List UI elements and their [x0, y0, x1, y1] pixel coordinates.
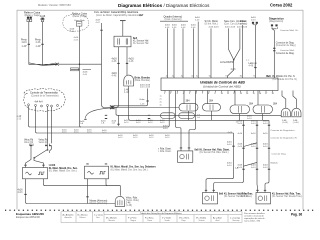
label assist title	[236, 20, 248, 29]
label W29	[18, 190, 24, 195]
wire W17 motor	[241, 25, 243, 78]
wire W19 diagnostic	[272, 27, 278, 78]
svg-text:da. Tras.: da. Tras.	[240, 195, 249, 198]
connector ticks on W19	[273, 48, 275, 51]
wire W27 right drop	[50, 146, 52, 153]
wire stubs at connector row	[30, 144, 50, 146]
svg-text:da. Tras.: da. Tras.	[240, 192, 249, 195]
svg-text:(Conector de Diag.): (Conector de Diag.)	[276, 44, 296, 47]
wire W39 right vertical b	[256, 120, 259, 192]
wire Y1 down	[188, 111, 190, 120]
svg-text:(Cont. de Motor: Caja ECM/Iny.: (Cont. de Motor: Caja ECM/Iny. Electróni…	[96, 14, 141, 17]
inline connector X7	[71, 68, 92, 71]
svg-text:4-46: 4-46	[172, 27, 177, 29]
label sensor FR designator	[111, 166, 157, 172]
svg-text:(KL Sensor Hal. Rda. Diant.): (KL Sensor Hal. Rda. Diant.)	[200, 151, 229, 154]
wire jog J4	[244, 143, 258, 147]
label speed sensor pair a	[24, 139, 34, 144]
svg-text:Linha RD/PR: Linha RD/PR	[220, 62, 234, 64]
footer table cells text	[63, 214, 241, 222]
label on W5 upper	[112, 58, 118, 64]
wire W12 panel e	[197, 22, 199, 79]
label ECM title	[94, 11, 144, 17]
svg-text:(Relés y Caja): (Relés y Caja)	[73, 16, 88, 18]
svg-text:8e8: 8e8	[195, 148, 200, 151]
svg-text:Esquemas ABS1/00: Esquemas ABS1/00	[16, 215, 40, 219]
svg-text:4x16 4x16: 4x16 4x16	[225, 27, 236, 29]
label W33	[163, 125, 169, 129]
wire W26 crossover upper	[34, 143, 48, 167]
pump motor M2	[292, 108, 301, 117]
wire W15 assist	[234, 28, 240, 59]
svg-text:P = Preto: P = Preto	[128, 216, 137, 219]
label speed sensor pair b	[39, 139, 49, 144]
label right note 3	[272, 153, 287, 156]
svg-text:Blanco: Blanco	[80, 217, 87, 219]
connector tick W36	[232, 145, 234, 147]
label row mid band	[62, 129, 170, 139]
wire W13 inhibit	[210, 28, 212, 78]
hall sensor B3 rear-left	[203, 193, 218, 204]
label sensor FL designator	[49, 164, 78, 172]
wire pin18 to M2	[293, 91, 296, 109]
svg-text:A = Amarelo: A = Amarelo	[63, 214, 75, 217]
connector ticks W40	[268, 125, 270, 169]
connector tick on W5	[117, 62, 119, 64]
labels on W38	[238, 121, 244, 169]
label TC1 title	[30, 92, 59, 98]
svg-text:4x16: 4x16	[263, 146, 269, 148]
sensor B1 dome (Boia/Bomba)	[124, 75, 134, 86]
svg-text:3B4: 3B4	[186, 101, 191, 103]
wire W1 battery feed	[28, 22, 30, 63]
svg-text:3B4: 3B4	[249, 103, 254, 105]
ground dome E1	[115, 196, 124, 206]
label row extra right column	[238, 133, 269, 135]
svg-text:4x16: 4x16	[22, 41, 28, 44]
ECM box U1	[114, 36, 131, 47]
svg-text:(Si Inh. Mot.): (Si Inh. Mot.)	[205, 22, 218, 25]
valve Y1	[179, 104, 198, 111]
label on merged wire	[220, 60, 250, 71]
svg-text:(KL Mást. Mástil. Drs. Sen. Iz: (KL Mást. Mástil. Drs. Sen. Izq. Del.)	[111, 168, 148, 171]
svg-text:KL Mást. Mástil. Drs. Sen.: KL Mást. Mástil. Drs. Sen.	[49, 167, 78, 170]
svg-text:1-46: 1-46	[140, 104, 145, 106]
label W36 a	[227, 142, 233, 146]
wire W25 left drop	[26, 143, 32, 167]
connector ticks on buses	[105, 115, 150, 118]
connector ticks W39	[256, 125, 258, 169]
svg-text:Azul: Azul	[216, 219, 220, 222]
wire W41 from K2	[79, 26, 81, 64]
svg-text:KL Módulo Ctr. Pto. N: KL Módulo Ctr. Pto. N	[273, 75, 295, 78]
wire W36 pin11 long drop	[206, 133, 234, 193]
svg-text:Marrón: Marrón	[109, 220, 115, 222]
connector X1 (fuse block terminals)	[27, 17, 32, 22]
wire pin17 to M1	[282, 91, 286, 109]
label W43 top	[140, 84, 151, 88]
svg-text:Conector Mód. Ctr.: Conector Mód. Ctr.	[280, 29, 299, 32]
pin ticks G1	[24, 164, 44, 166]
pin labels panel row	[165, 24, 197, 28]
svg-text:4x16: 4x16	[74, 39, 80, 41]
svg-text:4x16 4x16: 4x16 4x16	[209, 27, 220, 29]
footer note block	[244, 212, 265, 223]
svg-text:Az = Azul: Az = Azul	[213, 216, 222, 219]
connector X2	[41, 18, 43, 22]
wire W3 to main junction	[59, 23, 111, 108]
svg-text:4-46: 4-46	[83, 74, 88, 76]
svg-text:4x16: 4x16	[18, 192, 24, 194]
svg-text:Violeta: Violeta	[199, 219, 206, 222]
connector tick on W18	[254, 67, 256, 69]
pump motor M1	[281, 108, 290, 117]
svg-text:4x17: 4x17	[96, 22, 102, 24]
svg-text:4x16: 4x16	[227, 144, 233, 146]
label motor ground	[240, 20, 247, 26]
svg-text:Amarillo: Amarillo	[65, 216, 73, 219]
svg-text:8e8: 8e8	[267, 75, 272, 78]
wire W37 hall rear-left second	[214, 120, 244, 192]
svg-text:4-46: 4-46	[112, 60, 117, 63]
bus N1 valve return	[116, 108, 281, 116]
labels on W39	[251, 121, 257, 169]
connector X5 diag terminals	[271, 24, 278, 26]
main junction J1	[110, 106, 115, 110]
svg-text:Veloc.Rd: Veloc.Rd	[39, 142, 49, 144]
label fuse F2	[40, 15, 46, 21]
svg-text:4-46: 4-46	[181, 27, 186, 29]
labels on W40	[263, 121, 269, 169]
label right margin note 2	[280, 49, 295, 52]
svg-text:4x16 4x16: 4x16 4x16	[140, 87, 151, 89]
valve Y6 lower row b	[179, 113, 195, 119]
svg-text:Controle da Transmissão: Controle da Transmissão	[30, 92, 58, 95]
bus N2 lower link	[129, 115, 269, 120]
wire W21 bus3 rise to pin	[168, 91, 170, 128]
label X7	[83, 72, 89, 76]
svg-text:4x16: 4x16	[70, 31, 76, 33]
svg-text:(...): (...)	[246, 60, 250, 62]
svg-text:3B4: 3B4	[273, 103, 278, 105]
svg-text:1-4P: 1-4P	[22, 45, 27, 48]
svg-text:(KL Mást. Mástil. Drs. Sen.): (KL Mást. Mástil. Drs. Sen.)	[49, 170, 77, 173]
wire W28 bus1 into G2	[87, 127, 89, 163]
svg-text:4-46: 4-46	[129, 60, 134, 63]
wire Y4 down	[262, 114, 264, 121]
label B4 right	[272, 192, 302, 198]
bus N0 to valve Y1	[114, 107, 180, 109]
footer legend table	[61, 212, 242, 223]
relay cloud K2	[63, 14, 89, 31]
wire W4 ECM supply	[122, 21, 124, 37]
junction J2	[233, 59, 235, 61]
label diag connector block2	[276, 52, 295, 55]
wire W10 panel c	[182, 28, 184, 78]
wire W5 from U1 pin A	[113, 47, 119, 108]
svg-text:Pag. 36: Pag. 36	[291, 213, 302, 217]
svg-text:Motor: Motor	[240, 20, 246, 23]
label on W5 lower	[112, 72, 118, 78]
svg-text:KL Sensor Hal. Rda. Tras.: KL Sensor Hal. Rda. Tras.	[224, 192, 253, 195]
transmission cloud TC1	[23, 89, 65, 112]
svg-text:Cx/s. de Motor: Caixa ECM/Inj.: Cx/s. de Motor: Caixa ECM/Inj. Eletrônic…	[94, 11, 139, 14]
svg-text:Gris: Gris	[96, 217, 100, 219]
wire stub S2 from J1	[85, 108, 112, 119]
svg-text:4x16: 4x16	[251, 19, 257, 21]
hall sensor B2 mid	[178, 151, 193, 162]
label row under pins left	[101, 120, 165, 125]
wire W16 merged to box	[228, 60, 234, 78]
svg-text:Conector Mód.: Conector Mód.	[280, 49, 295, 52]
wire W22 cloud to bus4	[36, 106, 234, 133]
wire W31 G2 ground	[87, 179, 89, 204]
footer schema name	[16, 212, 44, 219]
wire W11 panel d	[193, 28, 195, 78]
label W12 top	[195, 17, 201, 21]
svg-text:Corsa 2002 - GM: Corsa 2002 - GM	[244, 220, 260, 223]
label diagnostic title	[269, 16, 284, 23]
svg-text:Veloc.Rd: Veloc.Rd	[24, 142, 34, 144]
ruler tick marks	[5, 210, 313, 211]
svg-text:Modelo / Versión: 5957/153: Modelo / Versión: 5957/153	[38, 3, 71, 7]
svg-text:Vl = Violeta: Vl = Violeta	[196, 216, 207, 219]
pin ticks G2	[86, 163, 107, 165]
valve Y3	[230, 105, 250, 114]
wire W34 pin5 to hall mid	[187, 91, 190, 151]
wire W23 cloud sensor a	[47, 106, 49, 143]
svg-text:Si Inh. Motor: Si Inh. Motor	[205, 20, 219, 23]
splice X3 crossover	[29, 63, 59, 66]
wire W14 console	[228, 28, 233, 59]
wire W7 from B1 to bus	[128, 86, 130, 115]
svg-text:(KL Sensor Hal. Rueda Tras.): (KL Sensor Hal. Rueda Tras.)	[272, 195, 302, 198]
svg-text:Verde: Verde	[165, 220, 171, 222]
wire Y2 down	[211, 111, 213, 120]
svg-text:Veloc.: Veloc.	[139, 99, 145, 101]
label W43 mid	[139, 99, 145, 106]
wire stub S3 below J1	[118, 115, 120, 126]
svg-text:(Cont. (Interno)): (Cont. (Interno))	[165, 18, 182, 21]
label on W6	[129, 58, 135, 64]
label pin column left	[160, 96, 163, 107]
connector ticks row X6	[30, 145, 52, 147]
svg-text:Módulo: Módulo	[271, 162, 279, 164]
svg-text:(Diagnóstico): (Diagnóstico)	[269, 20, 283, 23]
pin ticks hall rear-left	[205, 189, 215, 191]
wire W20 cloud to bus3	[29, 106, 168, 127]
pin labels above ABS box	[166, 76, 276, 78]
label under M2	[293, 120, 299, 124]
svg-text:(Bóia. Bomba): (Bóia. Bomba)	[135, 79, 150, 82]
wire W24 cloud sensor b	[51, 107, 53, 143]
connector tick on W2	[41, 43, 43, 45]
wire W9 panel b	[173, 28, 175, 78]
label right note 1	[271, 129, 296, 132]
label relay box K1	[24, 10, 41, 17]
svg-text:Naranja: Naranja	[233, 220, 241, 222]
label E1	[126, 198, 140, 208]
svg-text:KL Sensor Hal. Rda. Tras.: KL Sensor Hal. Rda. Tras.	[272, 192, 301, 195]
svg-text:KL Sensor Hal. Rda. Diant.: KL Sensor Hal. Rda. Diant.	[200, 148, 230, 151]
svg-text:(Motor): (Motor)	[240, 22, 247, 25]
node switch contacts	[34, 149, 49, 158]
label W41	[74, 37, 80, 41]
svg-text:4x16: 4x16	[238, 146, 244, 148]
wheel sensor G1 front-left	[23, 168, 48, 179]
label W31 massa	[90, 199, 108, 205]
svg-text:4-46: 4-46	[112, 75, 117, 78]
label B2 right	[195, 148, 230, 154]
svg-text:r. Rda. Diant.: r. Rda. Diant.	[158, 150, 172, 153]
wire W6 from U1 pin B	[126, 47, 128, 75]
svg-text:Conector de Diagnóstico: Conector de Diagnóstico	[271, 129, 296, 132]
wire pin16 to Y4	[257, 91, 259, 106]
svg-text:Corsa 2002: Corsa 2002	[270, 3, 293, 8]
label on W18	[249, 63, 258, 68]
connector tick on W6	[126, 62, 128, 64]
connector ticks W38	[242, 125, 244, 169]
wire W2 ignition feed	[42, 22, 44, 66]
wire W33 pin2 to hall mid	[176, 91, 182, 151]
ABS control unit U2	[161, 78, 278, 91]
wire W8 panel a	[167, 28, 169, 78]
svg-text:Caixa Rele: Caixa Rele	[74, 20, 85, 22]
label right note 4	[271, 162, 279, 164]
wire W32 G2 signal	[106, 179, 120, 196]
svg-text:4x16: 4x16	[163, 128, 169, 130]
pin stubs below U2	[165, 91, 273, 93]
valve Y2	[203, 104, 221, 111]
wire Y3 down	[239, 114, 241, 121]
svg-text:(KL Módulo Ctrl. Pto. N): (KL Módulo Ctrl. Pto. N)	[273, 78, 298, 81]
svg-text:Negro: Negro	[131, 220, 137, 222]
wire pin12 to Y3	[234, 91, 236, 106]
svg-text:Massa (Abertura): Massa (Abertura)	[90, 202, 108, 205]
svg-text:4x16: 4x16	[251, 146, 257, 148]
svg-text:4x16: 4x16	[238, 123, 244, 125]
label under M1	[282, 120, 288, 124]
wire pin4 to Y1	[183, 91, 185, 104]
valve Y5 lower row a	[161, 113, 176, 119]
svg-text:(Relés y Caja): (Relés y Caja)	[25, 14, 40, 17]
svg-text:4x16: 4x16	[247, 118, 253, 120]
svg-text:4x4 4x4: 4x4 4x4	[35, 101, 44, 103]
wire W35 hall mid second pin	[189, 91, 196, 151]
svg-text:4x16: 4x16	[263, 123, 269, 125]
label U1 right	[133, 37, 149, 45]
wire W42 stub to inline connector	[71, 64, 81, 127]
connector tick on W3	[100, 29, 102, 31]
label W3 top	[96, 20, 102, 24]
svg-text:4x16: 4x16	[251, 123, 257, 125]
frame border	[17, 10, 303, 209]
pin ticks hall rear-right	[256, 189, 266, 191]
label splice S1 wire colors	[21, 39, 41, 48]
svg-text:3B4: 3B4	[209, 101, 214, 103]
node terminals in TC1	[28, 104, 59, 107]
svg-text:KL Sensor Hal: KL Sensor Hal	[133, 42, 149, 45]
label panel title (Quadro)	[160, 16, 188, 22]
svg-text:8e8: 8e8	[219, 192, 224, 195]
label right note 2	[271, 137, 298, 140]
svg-text:4x16: 4x16	[263, 167, 269, 169]
label W36 b	[227, 163, 233, 167]
svg-text:4x16: 4x16	[228, 132, 234, 134]
svg-text:(1-46): (1-46)	[126, 205, 132, 207]
label Y6 right	[197, 115, 201, 119]
svg-text:1-10: 1-10	[17, 119, 22, 121]
wheel sensor G2 front-right	[85, 166, 109, 179]
svg-text:Conector Diag.: Conector Diag.	[272, 153, 287, 156]
connector tick S2	[84, 118, 86, 120]
wire jog J5	[244, 162, 258, 166]
wire pin7 to Y2	[207, 91, 209, 104]
svg-text:(Unidad de Control del ABS): (Unidad de Control del ABS)	[203, 84, 241, 88]
node T1 terminal bar	[120, 20, 126, 22]
label console switch title	[224, 20, 236, 29]
svg-text:(Control de la Transmisión): (Control de la Transmisión)	[31, 94, 59, 97]
label B3 right	[219, 192, 253, 198]
svg-text:Conector de Diagnóstico N: Conector de Diagnóstico N	[271, 137, 298, 140]
connector ticks above hall mid	[180, 147, 190, 149]
svg-text:Save Con.: Save Con.	[224, 20, 235, 23]
hall sensor B4 rear-right	[256, 193, 271, 204]
pin number labels below U2	[164, 93, 275, 95]
svg-text:Diagramas Elétricos / Diagrama: Diagramas Elétricos / Diagramas Eléctric…	[118, 3, 210, 8]
label left of B4	[240, 192, 249, 198]
label U2 right (module)	[267, 75, 298, 81]
svg-text:4-46: 4-46	[36, 41, 41, 44]
connector X4 terminals	[252, 22, 258, 25]
label right margin note 1	[280, 29, 299, 32]
label W36 top	[235, 166, 239, 169]
label between Y3 Y4	[247, 115, 253, 119]
connector tick S3	[117, 123, 119, 125]
label B1	[135, 77, 151, 83]
svg-text:4x16: 4x16	[227, 165, 233, 167]
junction J3	[79, 64, 80, 65]
svg-text:(Con. Con.): (Con. Con.)	[224, 23, 236, 25]
label motor inhibit title	[205, 20, 220, 29]
connector tick W43	[146, 100, 148, 102]
svg-text:4x16: 4x16	[251, 167, 257, 169]
label X4 top	[251, 17, 257, 21]
wire W18 ABS main feed	[254, 25, 256, 78]
svg-text:Conector de Diag.: Conector de Diag.	[276, 52, 295, 55]
svg-text:Tabela das Situações do Esquem: Tabela das Situações do Esquema Elétrico	[140, 212, 182, 215]
wire W43 speed signal stub	[114, 89, 148, 106]
svg-text:1-4P: 1-4P	[36, 45, 41, 48]
svg-text:4x16: 4x16	[238, 167, 244, 169]
svg-text:KL Mást. Mástil. Drs. Sen. Izq: KL Mást. Mástil. Drs. Sen. Izq. Delanter…	[111, 166, 157, 169]
label under B1	[124, 88, 129, 94]
wire W30 G1 signal	[44, 179, 121, 186]
label W36 c	[228, 121, 239, 134]
label K2 pins	[70, 29, 76, 33]
label diag connector block1	[276, 41, 296, 47]
valve Y4	[253, 105, 273, 114]
svg-text:4-46: 4-46	[195, 19, 200, 21]
connector tick W31	[86, 196, 88, 198]
label K2 title	[72, 13, 88, 19]
wire W40 right vertical c	[265, 120, 269, 192]
label S2	[80, 121, 85, 125]
svg-text:(1-46): (1-46)	[282, 122, 288, 124]
connector tick W29	[24, 193, 26, 195]
wire W29 G1 ground	[26, 179, 116, 204]
svg-text:(1-46): (1-46)	[293, 122, 299, 124]
